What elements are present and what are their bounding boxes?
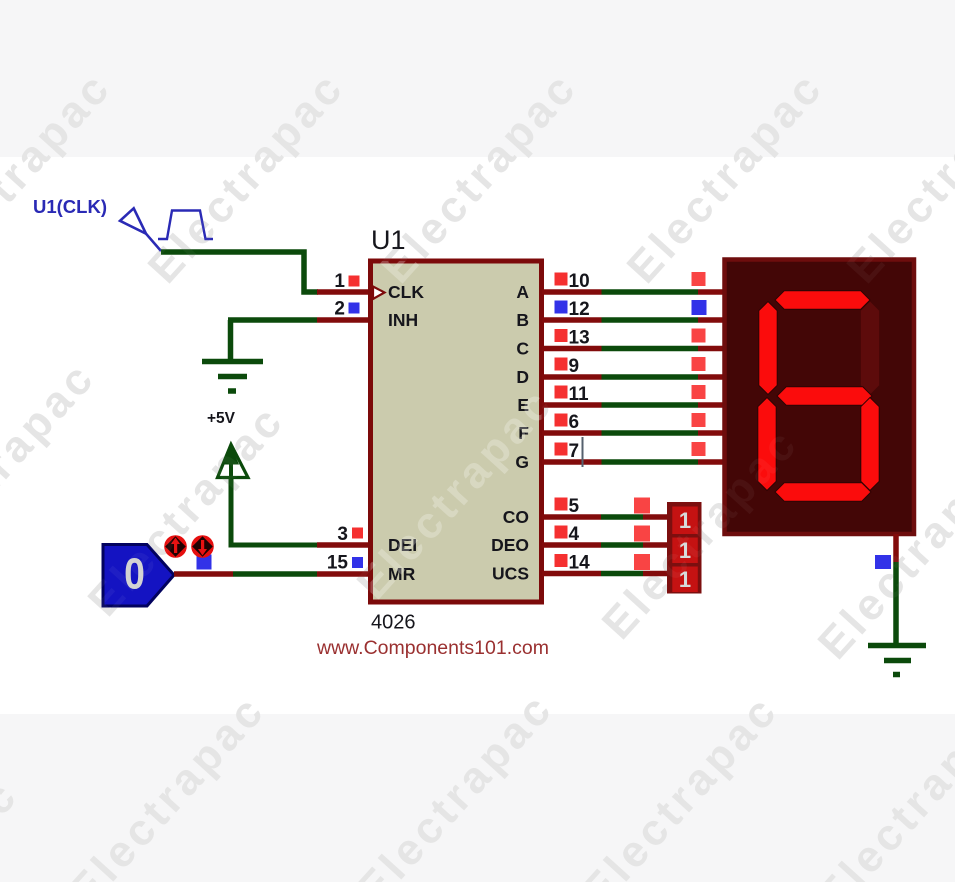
svg-text:3: 3 <box>337 524 348 545</box>
cursor artifact after pin 7 <box>582 437 584 467</box>
svg-text:4026: 4026 <box>371 612 416 634</box>
segment C (lit) <box>861 398 879 491</box>
pin 1 stub <box>317 289 370 295</box>
display ground wire <box>893 534 899 562</box>
svg-text:12: 12 <box>569 299 590 320</box>
svg-text:2: 2 <box>334 299 345 320</box>
segment F (lit) <box>759 302 777 395</box>
pin 13 probe squares + number <box>555 329 568 342</box>
toggle button down <box>191 535 214 558</box>
blue state square <box>875 555 891 569</box>
svg-text:10: 10 <box>569 271 590 292</box>
wire IC pin 13 to display <box>542 346 602 352</box>
wire IC pin 6 to display <box>542 430 602 436</box>
svg-text:5: 5 <box>569 496 580 517</box>
svg-text:B: B <box>516 310 529 330</box>
svg-text:CO: CO <box>503 507 529 527</box>
segment A (lit) <box>775 291 870 309</box>
svg-text:9: 9 <box>569 356 580 377</box>
pin 7 probe squares + number <box>555 443 568 456</box>
wire clock to pin1 <box>161 252 318 292</box>
wire IC pin 5 to indicator <box>542 514 601 520</box>
svg-text:4: 4 <box>569 524 580 545</box>
svg-text:15: 15 <box>327 553 349 574</box>
svg-text:UCS: UCS <box>492 564 529 584</box>
pin 12 probe squares + number <box>555 301 568 314</box>
svg-text:11: 11 <box>569 384 590 405</box>
segment B (off) <box>861 302 879 395</box>
svg-text:C: C <box>516 339 529 359</box>
clock pin triangle <box>373 287 385 300</box>
state blue square <box>197 555 212 570</box>
segment G (lit) <box>777 387 872 405</box>
pin 6 probe squares + number <box>555 414 568 427</box>
wire IC pin 11 to display <box>542 402 602 408</box>
7-segment display body <box>725 260 915 535</box>
pin 4 probe squares + number <box>555 526 568 539</box>
wire IC pin 12 to display <box>542 317 602 323</box>
svg-text:DEO: DEO <box>491 535 529 555</box>
toggle button up <box>164 535 187 558</box>
pulse waveform icon <box>158 211 213 240</box>
ground symbol <box>868 646 926 675</box>
pin 9 probe squares + number <box>555 358 568 371</box>
svg-text:www.Components101.com: www.Components101.com <box>316 637 549 659</box>
segment D (lit) <box>775 483 871 501</box>
ground (INH) <box>202 320 263 391</box>
logicstate 0 input <box>103 545 174 607</box>
svg-text:7: 7 <box>569 441 580 462</box>
svg-text:1: 1 <box>334 271 345 292</box>
pin 2 stub <box>317 317 370 323</box>
pin 5 probe squares + number <box>555 498 568 511</box>
pin 15 stub <box>317 571 370 577</box>
wire IC pin 7 to display <box>542 459 602 465</box>
wire IC pin 9 to display <box>542 374 602 380</box>
svg-text:13: 13 <box>569 328 590 349</box>
pin 14 probe squares + number <box>555 554 568 567</box>
svg-text:A: A <box>516 282 529 302</box>
segment E (lit) <box>758 398 776 491</box>
wire IC pin 10 to display <box>542 289 602 295</box>
pin 10 probe squares + number <box>555 273 568 286</box>
svg-text:6: 6 <box>569 412 580 433</box>
svg-text:U1(CLK): U1(CLK) <box>33 196 107 217</box>
generator probe triangle <box>120 208 161 251</box>
wire IC pin 14 to indicator <box>542 571 601 577</box>
wire ground to pin2 <box>228 317 317 323</box>
op IC U1 4026 body <box>371 261 542 602</box>
wire logicstate to pin15 (MR) <box>174 571 233 577</box>
pin 11 probe squares + number <box>555 386 568 399</box>
svg-text:INH: INH <box>388 310 418 330</box>
wire +5V to pin3 (DEI) <box>231 478 317 546</box>
wire IC pin 4 to indicator <box>542 542 601 548</box>
pin 3 stub <box>317 542 370 548</box>
svg-text:14: 14 <box>569 553 591 574</box>
logic indicator block <box>667 502 702 594</box>
